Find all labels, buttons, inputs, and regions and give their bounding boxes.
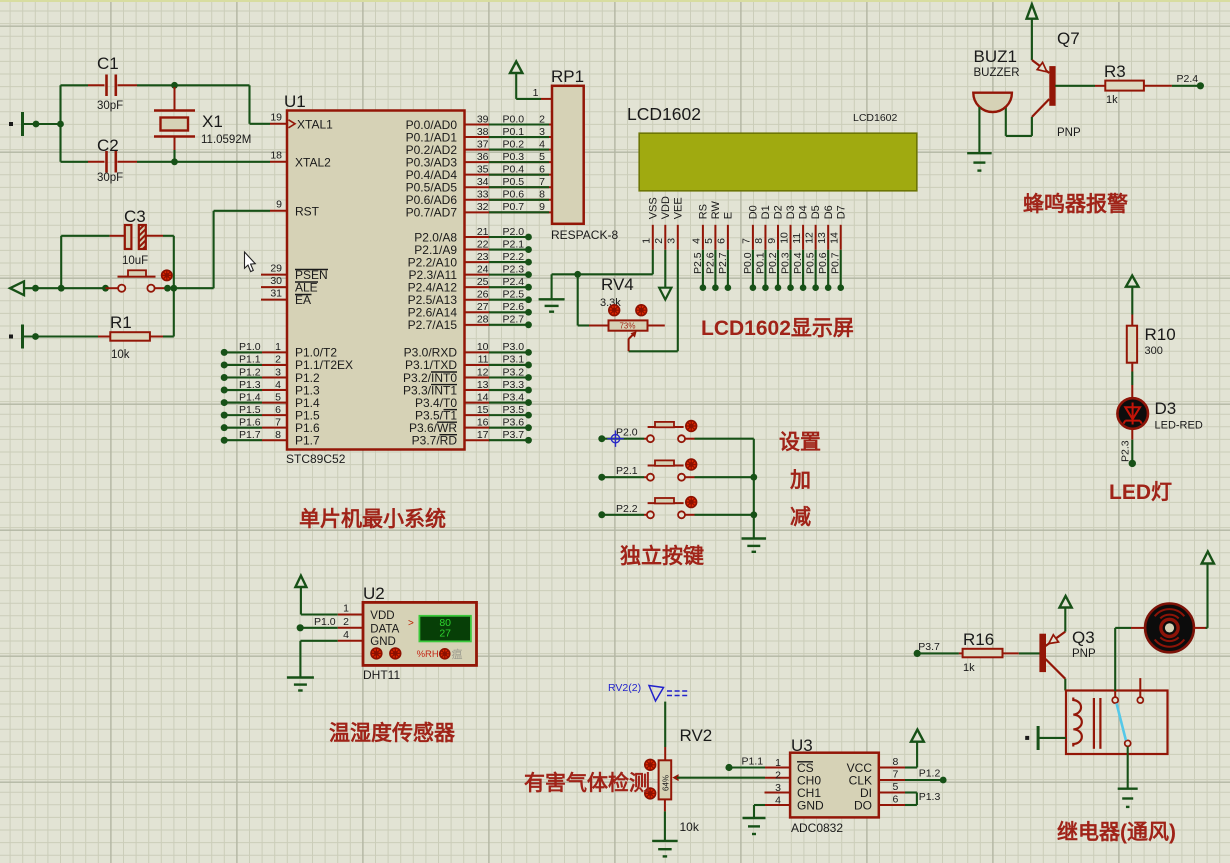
pin VCC wire to power	[879, 767, 906, 769]
svg-text:P0.3: P0.3	[503, 151, 525, 163]
svg-text:VDD: VDD	[370, 610, 394, 622]
pin P1.4	[221, 399, 228, 406]
svg-text:5: 5	[703, 238, 715, 244]
svg-text:XTAL1: XTAL1	[297, 117, 333, 131]
svg-text:P0.4: P0.4	[792, 252, 804, 274]
svg-text:VSS: VSS	[647, 197, 659, 219]
LCD pin 13 D6	[827, 225, 829, 250]
svg-text:1k: 1k	[963, 662, 975, 674]
svg-text:DHT11: DHT11	[363, 668, 400, 682]
svg-text:单片机最小系统: 单片机最小系统	[299, 507, 446, 531]
ground terminal (crystal)	[9, 122, 13, 126]
svg-text:22: 22	[477, 238, 489, 250]
svg-text:LED灯: LED灯	[1109, 481, 1172, 504]
wire P2.7	[727, 250, 729, 288]
relay box	[1066, 691, 1168, 755]
svg-text:LED-RED: LED-RED	[1155, 420, 1203, 432]
svg-text:P3.6: P3.6	[503, 416, 525, 428]
wire	[1131, 372, 1133, 386]
LCD pin 7 D0	[752, 225, 754, 250]
ADC U3 ADC0832	[790, 753, 879, 818]
pin P1.5	[221, 412, 228, 419]
LCD pin 10 D3	[790, 225, 792, 250]
svg-text:35: 35	[477, 163, 489, 175]
svg-text:13: 13	[816, 232, 828, 244]
power arrow (DHT11)	[295, 576, 306, 587]
wire button bus	[753, 439, 755, 539]
resistor R10	[1131, 315, 1133, 326]
svg-text:R16: R16	[963, 630, 994, 649]
capacitor C1	[61, 84, 89, 86]
svg-text:1: 1	[533, 87, 539, 99]
wire	[59, 85, 61, 162]
svg-text:18: 18	[270, 150, 282, 162]
wire	[23, 123, 61, 125]
svg-text:P1.1: P1.1	[239, 354, 261, 366]
svg-text:P3.5: P3.5	[503, 404, 525, 416]
svg-text:P2.7: P2.7	[503, 314, 525, 326]
wire	[664, 811, 666, 841]
push button (reset)	[106, 287, 119, 289]
pin ALE	[261, 286, 287, 288]
power arrow (LED)	[1126, 276, 1139, 287]
svg-text:RV2(2): RV2(2)	[608, 682, 641, 694]
svg-text:P2.7: P2.7	[717, 252, 729, 274]
svg-text:RV4: RV4	[601, 275, 634, 294]
svg-text:LCD1602: LCD1602	[627, 104, 701, 124]
svg-text:64%: 64%	[661, 775, 670, 791]
wire pin1	[300, 587, 302, 615]
svg-text:3: 3	[275, 366, 281, 378]
svg-text:25: 25	[477, 276, 489, 288]
DHT11 buttons/markers	[371, 648, 382, 659]
svg-text:P3.3: P3.3	[503, 379, 525, 391]
svg-text:73%: 73%	[619, 322, 635, 331]
svg-text:6: 6	[539, 163, 545, 175]
relay pole	[1125, 740, 1131, 746]
svg-text:P1.0: P1.0	[239, 341, 261, 353]
resistor R1	[9, 335, 13, 339]
LCD1602 screen	[639, 133, 917, 191]
svg-text:1: 1	[343, 603, 349, 615]
ground arrow (reset)	[10, 281, 24, 295]
svg-text:D1: D1	[760, 205, 772, 219]
svg-text:P2.0: P2.0	[503, 226, 525, 238]
svg-text:1: 1	[641, 238, 653, 244]
LCD pin 5 RW	[714, 225, 716, 250]
wire terminal P2.4	[1172, 85, 1201, 87]
svg-text:有害气体检测: 有害气体检测	[524, 771, 650, 795]
svg-text:RV2: RV2	[680, 726, 713, 745]
svg-text:P2.3: P2.3	[503, 263, 525, 275]
svg-text:3: 3	[539, 126, 545, 138]
svg-text:17: 17	[477, 429, 489, 441]
svg-text:RESPACK-8: RESPACK-8	[551, 228, 618, 242]
relay coil	[1073, 698, 1082, 747]
svg-text:2: 2	[775, 770, 781, 782]
svg-text:VDD: VDD	[660, 196, 672, 219]
wire base Q3	[1019, 652, 1040, 654]
push button P2.2	[598, 511, 605, 518]
svg-text:RW: RW	[710, 201, 722, 220]
svg-text:P2.6: P2.6	[503, 301, 525, 313]
svg-text:10uF: 10uF	[122, 255, 148, 267]
pin P1.7	[221, 437, 228, 444]
pin P1.3	[221, 387, 228, 394]
LCD pin 9 D2	[777, 225, 779, 250]
LCD pin 14 D7	[840, 225, 842, 250]
pin XTAL1	[270, 123, 287, 125]
svg-text:31: 31	[270, 287, 282, 299]
svg-text:39: 39	[477, 113, 489, 125]
svg-text:P0.3: P0.3	[780, 252, 792, 274]
svg-text:P1.3: P1.3	[239, 379, 261, 391]
svg-text:5: 5	[275, 391, 281, 403]
svg-text:33: 33	[477, 189, 489, 201]
LED D3	[1131, 385, 1133, 399]
DHT11 display	[419, 616, 471, 642]
pin P1.2	[221, 374, 228, 381]
svg-text:3: 3	[666, 238, 678, 244]
svg-text:P0.7: P0.7	[830, 252, 842, 274]
svg-text:P0.5: P0.5	[503, 176, 525, 188]
wire base Q7	[1055, 85, 1095, 87]
svg-text:11: 11	[791, 233, 803, 244]
svg-text:2: 2	[539, 113, 545, 125]
svg-text:P3.7: P3.7	[918, 641, 940, 653]
svg-text:38: 38	[477, 126, 489, 138]
svg-text:6: 6	[716, 238, 728, 244]
wire P2.6	[714, 250, 716, 288]
svg-text:P0.0: P0.0	[503, 113, 525, 125]
svg-text:P0.2: P0.2	[767, 252, 779, 274]
potentiometer RV2	[664, 747, 666, 760]
svg-text:9: 9	[766, 238, 778, 244]
transistor Q7 PNP	[1032, 60, 1049, 73]
svg-text:300: 300	[1145, 345, 1163, 357]
svg-text:%RH: %RH	[417, 649, 439, 660]
svg-text:26: 26	[477, 289, 489, 301]
svg-text:P2.1: P2.1	[616, 465, 638, 477]
svg-text:8: 8	[893, 756, 899, 768]
svg-text:30pF: 30pF	[97, 100, 123, 112]
relay contact left	[1114, 691, 1116, 697]
wire P0.0	[752, 250, 754, 288]
svg-text:P0.0: P0.0	[742, 252, 754, 274]
wire emitter to power	[1064, 608, 1066, 632]
svg-text:STC89C52: STC89C52	[286, 452, 346, 466]
pin PSEN	[261, 274, 287, 276]
svg-text:4: 4	[691, 238, 703, 244]
svg-text:21: 21	[477, 226, 489, 238]
svg-text:32: 32	[477, 201, 489, 213]
svg-text:P2.3: P2.3	[1120, 440, 1132, 462]
push button P2.1	[598, 474, 605, 481]
svg-text:14: 14	[477, 391, 489, 403]
wire	[137, 84, 250, 86]
svg-text:5: 5	[893, 781, 899, 793]
pin XTAL2	[270, 161, 287, 163]
capacitor C3	[60, 236, 62, 288]
svg-text:U2: U2	[363, 584, 385, 603]
svg-text:P3.0: P3.0	[503, 341, 525, 353]
svg-text:34: 34	[477, 176, 489, 188]
power arrow (Q3)	[1060, 596, 1072, 608]
IC U1 STC89C52	[287, 111, 465, 450]
svg-text:11.0592M: 11.0592M	[201, 134, 251, 146]
svg-text:P0.7/AD7: P0.7/AD7	[406, 206, 458, 220]
svg-text:ADC0832: ADC0832	[791, 821, 843, 835]
relay contact right	[1139, 678, 1141, 697]
LCD pin 8 D1	[764, 225, 766, 250]
wire P0.4	[802, 250, 804, 288]
svg-text:GND: GND	[370, 636, 396, 648]
svg-text:8: 8	[539, 189, 545, 201]
LCD pin 2 VDD	[664, 225, 666, 250]
svg-text:PNP: PNP	[1072, 648, 1096, 660]
svg-text:E: E	[723, 212, 735, 219]
resistor R3	[1095, 85, 1105, 87]
svg-text:P3.2: P3.2	[503, 366, 525, 378]
svg-text:7: 7	[275, 416, 281, 428]
ground (VSS)	[539, 298, 565, 300]
svg-text:U1: U1	[284, 92, 306, 111]
pin P1.6	[221, 424, 228, 431]
svg-text:D3: D3	[785, 205, 797, 219]
svg-text:15: 15	[477, 404, 489, 416]
wire motor left	[1114, 628, 1116, 691]
svg-text:P1.2: P1.2	[239, 366, 261, 378]
pin CLK wire P1.2	[879, 779, 906, 781]
svg-text:>: >	[408, 618, 414, 629]
svg-text:7: 7	[539, 176, 545, 188]
pin DI	[879, 792, 906, 794]
svg-text:11: 11	[478, 354, 489, 366]
wire	[1131, 287, 1133, 315]
wire P0.2	[777, 250, 779, 288]
LCD pin 1 VSS	[652, 225, 654, 250]
svg-text:P1.4: P1.4	[239, 391, 261, 403]
pin P1.0	[221, 349, 228, 356]
wire terminal P2.3	[1131, 429, 1133, 440]
svg-text:P1.0: P1.0	[314, 616, 336, 628]
resistor R16	[917, 652, 959, 654]
svg-text:U3: U3	[791, 736, 813, 755]
svg-text:BUZ1: BUZ1	[974, 47, 1017, 66]
svg-text:DATA: DATA	[370, 624, 399, 636]
svg-text:13: 13	[477, 379, 489, 391]
svg-text:R1: R1	[110, 313, 132, 332]
svg-text:P0.1: P0.1	[754, 252, 766, 274]
wire P0.3	[789, 250, 791, 288]
svg-text:6: 6	[893, 794, 899, 806]
svg-text:37: 37	[477, 138, 489, 150]
svg-text:29: 29	[270, 262, 282, 274]
svg-text:P0.4: P0.4	[503, 163, 525, 175]
wire	[664, 702, 666, 747]
svg-text:C1: C1	[97, 54, 119, 73]
power arrow (ADC0832)	[911, 730, 924, 742]
svg-text:4: 4	[343, 629, 349, 641]
svg-text:4: 4	[539, 138, 545, 150]
svg-text:C2: C2	[97, 136, 119, 155]
svg-text:D7: D7	[835, 205, 847, 219]
push button P2.0	[598, 435, 605, 442]
svg-text:R10: R10	[1145, 325, 1176, 344]
svg-text:24: 24	[477, 263, 489, 275]
ground (relay)	[1118, 788, 1138, 790]
svg-text:PNP: PNP	[1057, 127, 1081, 139]
ground (ADC0832)	[743, 817, 766, 819]
svg-text:P2.2: P2.2	[616, 503, 638, 515]
svg-text:减: 减	[790, 505, 811, 529]
svg-text:12: 12	[477, 366, 489, 378]
svg-text:1k: 1k	[1106, 94, 1118, 106]
ground (buttons)	[742, 537, 767, 539]
svg-text:9: 9	[539, 201, 545, 213]
wire buzzer to ground	[978, 107, 980, 153]
capacitor C2	[61, 161, 89, 163]
wire	[24, 287, 106, 289]
wire CS	[729, 766, 765, 768]
svg-text:6: 6	[275, 404, 281, 416]
wire VDD terminal	[664, 250, 666, 288]
pin RST	[270, 210, 287, 212]
RV4 wiper	[629, 334, 634, 352]
mouse cursor	[245, 252, 256, 272]
svg-text:28: 28	[477, 314, 489, 326]
svg-text:加: 加	[789, 469, 811, 492]
svg-text:7: 7	[893, 769, 899, 781]
sensor U2 DHT11	[363, 602, 477, 665]
RV2 wiper wire to CH0	[672, 774, 678, 781]
svg-text:10: 10	[778, 232, 790, 244]
svg-text:LCD1602显示屏: LCD1602显示屏	[701, 317, 854, 340]
wire VEE to RV4 wiper	[677, 250, 679, 351]
svg-text:30pF: 30pF	[97, 172, 123, 184]
svg-text:P2.4: P2.4	[1177, 73, 1199, 85]
wire GND pin4	[754, 804, 765, 806]
svg-text:Q7: Q7	[1057, 29, 1080, 48]
svg-text:XTAL2: XTAL2	[295, 155, 331, 169]
svg-text:2: 2	[653, 238, 665, 244]
svg-text:D3: D3	[1155, 399, 1177, 418]
pin CH1 (stub)	[765, 792, 791, 794]
pin EA	[261, 299, 287, 301]
terminal P3.7	[914, 650, 921, 657]
svg-text:设置: 设置	[779, 431, 821, 454]
svg-text:P2.6: P2.6	[704, 252, 716, 274]
svg-text:D2: D2	[773, 205, 785, 219]
svg-text:P2.5: P2.5	[692, 252, 704, 274]
wire P2.5	[702, 250, 704, 288]
svg-text:温湿度传感器: 温湿度传感器	[329, 721, 456, 745]
power arrow (motor)	[1202, 552, 1214, 564]
wire RST	[168, 287, 214, 289]
svg-text:GND: GND	[797, 798, 824, 812]
wire XTAL2	[137, 161, 270, 163]
svg-text:12: 12	[803, 232, 815, 244]
svg-text:8: 8	[753, 238, 765, 244]
svg-text:RP1: RP1	[551, 67, 584, 86]
svg-text:16: 16	[477, 416, 489, 428]
transistor Q3 PNP	[1040, 634, 1046, 671]
LCD pin 6 E	[727, 225, 729, 250]
svg-text:4: 4	[275, 379, 281, 391]
svg-text:14: 14	[829, 232, 841, 244]
svg-text:蜂鸣器报警: 蜂鸣器报警	[1023, 192, 1128, 216]
wire motor right to power	[1193, 627, 1207, 629]
buzzer BUZ1	[973, 93, 1012, 112]
wire VSS to ground	[652, 250, 654, 274]
svg-text:2: 2	[275, 354, 281, 366]
wire P0.6	[827, 250, 829, 288]
svg-text:23: 23	[477, 251, 489, 263]
svg-text:2: 2	[343, 616, 349, 628]
wire	[1038, 737, 1066, 739]
svg-text:P3.7/RD: P3.7/RD	[412, 434, 458, 448]
svg-text:P1.1: P1.1	[742, 756, 764, 768]
svg-text:X1: X1	[202, 112, 223, 131]
relay armature (cyan)	[1117, 703, 1126, 740]
wire pin4 GND	[300, 640, 337, 642]
svg-text:19: 19	[270, 112, 282, 124]
svg-text:R3: R3	[1104, 62, 1126, 81]
svg-text:10k: 10k	[111, 349, 130, 361]
svg-text:P3.1: P3.1	[503, 354, 525, 366]
svg-text:RS: RS	[698, 204, 710, 219]
svg-text:独立按键: 独立按键	[620, 544, 704, 568]
crystal X1	[174, 87, 176, 111]
svg-text:36: 36	[477, 151, 489, 163]
svg-text:P2.1: P2.1	[503, 238, 525, 250]
svg-text:P1.3: P1.3	[919, 791, 941, 803]
svg-text:P0.6: P0.6	[817, 252, 829, 274]
svg-text:7: 7	[741, 238, 753, 244]
resistor pack RP1	[541, 98, 552, 100]
svg-text:P0.7: P0.7	[503, 201, 525, 213]
svg-text:10: 10	[477, 341, 489, 353]
wire	[515, 73, 517, 99]
svg-text:DO: DO	[854, 798, 872, 812]
wire P0.7	[840, 250, 842, 288]
svg-text:P1.7: P1.7	[295, 434, 320, 448]
potentiometer RV4	[577, 274, 579, 325]
LCD pin 11 D4	[802, 225, 804, 250]
svg-text:C3: C3	[124, 207, 146, 226]
svg-text:D0: D0	[748, 205, 760, 219]
svg-text:P3.4: P3.4	[503, 391, 525, 403]
power arrow (buzzer)	[1027, 4, 1038, 18]
svg-text:P0.2: P0.2	[503, 138, 525, 150]
LCD pin 4 RS	[702, 225, 704, 250]
wire pole to ground	[1127, 747, 1129, 788]
ground (DHT11)	[287, 676, 314, 678]
svg-text:P3.7: P3.7	[503, 429, 525, 441]
svg-text:D6: D6	[823, 205, 835, 219]
svg-text:27: 27	[477, 301, 489, 313]
svg-text:瘟: 瘟	[452, 647, 463, 661]
svg-text:30: 30	[270, 275, 282, 287]
ground (buzzer)	[967, 152, 992, 154]
svg-text:P2.7/A15: P2.7/A15	[408, 318, 458, 332]
pin DO wire P1.3	[879, 804, 906, 806]
svg-text:1: 1	[275, 341, 281, 353]
wire P0.1	[764, 250, 766, 288]
selection marker (blue crosshair)	[607, 431, 623, 447]
power arrow (RP1)	[510, 61, 522, 73]
svg-text:10k: 10k	[680, 820, 700, 834]
